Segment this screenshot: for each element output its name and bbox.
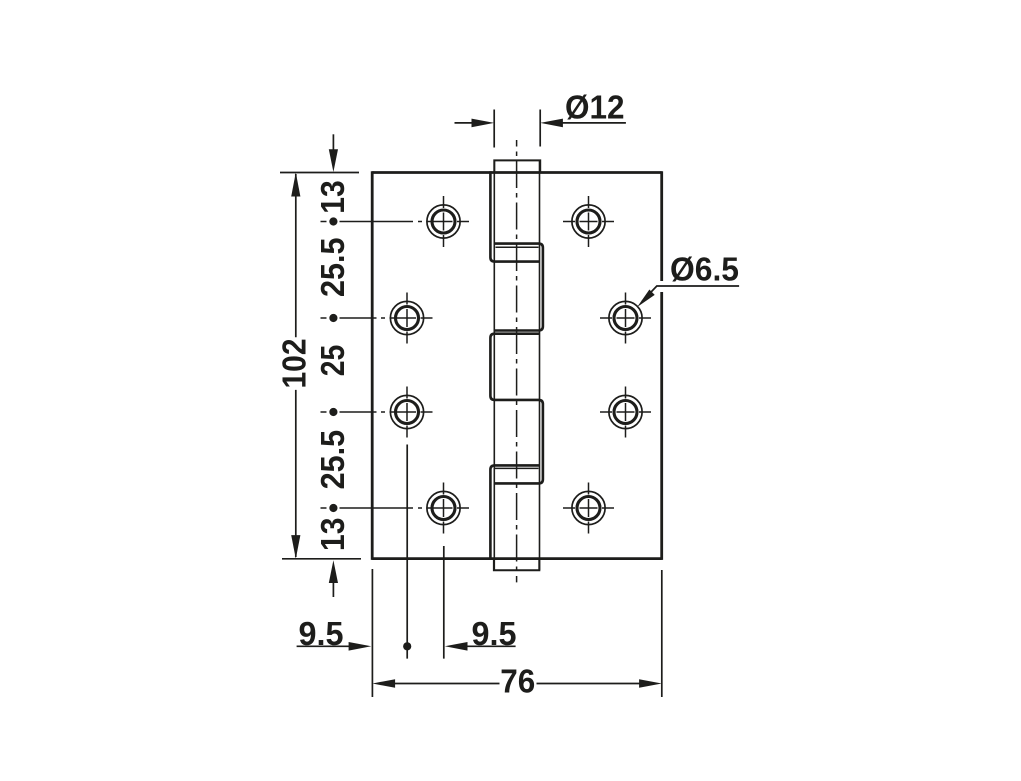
dia12 extension line right [539,110,541,147]
chain dimension bottom arrow [329,560,338,597]
screw hole row2 right, dia 6.5 [600,293,651,344]
plate right edge extension line bottom [661,570,663,697]
knuckle K5 inner metal edge [495,467,539,469]
screw hole row1 left [427,196,460,247]
dia12 extension line left [493,110,495,148]
chain dot bottom [403,642,411,650]
chain dot row1 [329,217,337,225]
knuckle K1 outer left edge and bottom joint [490,171,539,261]
knuckle bottom cap [494,559,539,571]
hole column1 extension line [406,445,408,659]
screw hole row4 right [563,483,614,534]
svg-text:25: 25 [314,345,351,377]
knuckle top cap [494,160,540,172]
chain dot row3 [329,408,337,416]
knuckle pin cylinder edges [494,160,539,570]
chain dimension top arrow [329,134,338,172]
76 dimension line with arrows [372,679,661,688]
dia12 dimension line right with arrow [540,119,626,128]
hole row centerline row2 [321,317,433,319]
svg-text:13: 13 [314,180,351,214]
chain dot row4 [329,504,337,512]
dia12 dimension line left with arrow [455,119,495,128]
hole column2 extension line [443,546,445,659]
svg-text:9.5: 9.5 [299,615,344,652]
9.5 right dimension [445,642,516,651]
screw hole row4 left [427,483,460,534]
plate left edge extension line bottom [371,569,373,697]
hole row centerline row3 [321,411,433,413]
knuckle K2 inner metal edge [496,246,539,248]
102 bottom extension line [282,558,361,560]
screw hole row2 left [390,293,423,344]
dia6.5 leader line [637,286,739,307]
screw hole row3 left [390,387,423,438]
pin centerline [516,140,518,582]
svg-text:13: 13 [314,517,351,551]
9.5 left dimension [297,642,372,651]
knuckle K5 top joint and outer left edge [490,465,539,558]
knuckle K3 and K4 joints with outer edges [490,334,543,484]
svg-text:25.5: 25.5 [314,238,351,298]
hole row centerline row4 [321,507,470,509]
svg-text:25.5: 25.5 [314,430,351,490]
102 top extension line [280,172,359,174]
hole row centerline row1 [321,221,470,223]
knuckle K2 outer right edge with top and bottom joints [494,244,543,331]
screw hole row3 right [600,387,651,438]
chain dot row2 [329,314,337,322]
svg-text:102: 102 [276,339,313,389]
svg-text:Ø6.5: Ø6.5 [670,250,739,287]
102 dimension line with arrows [291,173,300,559]
screw hole row1 right [563,196,614,247]
svg-text:Ø12: Ø12 [565,88,625,125]
hinge leaf plate outline [372,171,662,560]
svg-text:76: 76 [500,662,535,699]
svg-text:9.5: 9.5 [472,615,517,652]
